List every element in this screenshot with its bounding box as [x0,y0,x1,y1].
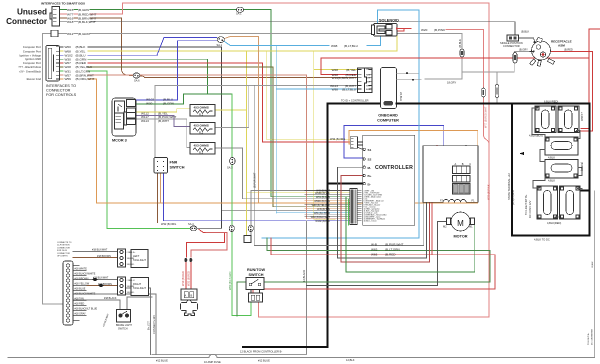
svg-text:W31 (B,GRN: W31 (B,GRN [316,196,330,199]
svg-text:SA.1: SA.1 [236,12,242,16]
battery interconnect wires [532,108,582,217]
svg-text:M-: M- [368,166,372,170]
svg-text:CONNECTOR: CONNECTOR [57,253,70,255]
svg-text:#12 BLUE: #12 BLUE [156,359,168,363]
svg-text:CONNECT+12V: CONNECT+12V [152,315,156,334]
svg-text:W-B: W-B [371,243,377,247]
wire gray vertical x=155 into FNR top [154,86,156,159]
svg-text:(B,PUR,WHT: (B,PUR,WHT [385,243,403,247]
labels MCOR wires [141,98,176,124]
wire W-B PUR/WHT loop below controller [254,86,424,246]
svg-text:W66: W66 [371,253,378,257]
wire W102 (B,BLU) controls pin3 [60,54,64,56]
svg-text:W113: W113 [141,119,149,123]
labels computer port rows [18,45,42,81]
wire cyan into onboard computer pin [276,88,357,90]
motor ABC connector lower [453,176,471,183]
svg-text:12 BLACK FROM CONTROLLER B-: 12 BLACK FROM CONTROLLER B- [240,350,282,354]
wire gray 12BLACK vertical x=305 to bottom line [306,221,308,355]
wire W57 pink run down x=287 to 16-pin [88,75,350,219]
svg-text:#18 TAN: #18 TAN [75,298,84,301]
wire cyan from junction SA.1b diagonal to y=45.3 [225,42,330,46]
wire W15 short link [74,8,78,10]
left taillight box [131,250,148,268]
svg-text:B: B [191,294,193,298]
junction SA.1b on blue pair [217,37,224,43]
svg-text:M2: M2 [443,225,447,229]
battery 4 middle horizontal lower [545,160,578,179]
svg-text:W28: W28 [332,68,339,72]
svg-text:#18 BLACK/WHITE: #18 BLACK/WHITE [75,293,96,296]
svg-text:(B,RED: (B,RED [385,253,396,257]
controller pin list tiny lines [364,190,387,222]
wire W18 (B,BLK,WHT) pin4 [59,21,67,23]
svg-text:M: M [457,219,464,228]
wire thin gray line y=354.5 [152,354,307,356]
wire motor red inside box [437,146,456,166]
battery 3 middle horizontal [545,137,578,155]
wire green W65 loop 16pin to motor M1 [346,197,475,272]
svg-text:18,BRN: 18,BRN [127,286,135,288]
wire FNR brown drop [157,173,159,223]
onboard computer box [381,68,397,109]
svg-text:TO ID + CONTROLLER: TO ID + CONTROLLER [341,99,369,103]
svg-text:PUR: PUR [366,82,371,84]
wire W117 purple from MCOR to R2 [136,115,194,126]
svg-text:#18 RED: #18 RED [75,303,85,306]
junction oval on gray vertical x=250.8 at rail [248,225,253,231]
battery 6 bottom-right [560,186,581,219]
wire W66 RED loop below controller [253,238,495,293]
wire yellow branch into controller 4-pin [267,51,351,140]
key switch connector [181,289,197,300]
wire yellow vertical x=313.7 to onboard + 16-pin [314,51,335,219]
connector for controls [46,46,60,82]
wire W31 (B,LT,GRN) controls pin7 [60,70,64,72]
svg-text:#18 BLACK/LT BLUE: #18 BLACK/LT BLUE [75,308,98,311]
svg-text:(B,BLK): (B,BLK) [580,162,584,171]
wire RUN/TOW pink drop to y=317 [257,302,259,317]
wire red receptacle down right side to battery plus [550,52,593,132]
junction SA.1 on green top wire [236,7,243,12]
svg-text:12,BLK: 12,BLK [346,358,355,362]
wire blue S2 loop up and over to motor ABC pin B [344,126,461,166]
svg-text:W34 (B,ORG: W34 (B,ORG [330,137,345,141]
svg-text:TO LIGHT KIT B+: TO LIGHT KIT B+ [524,194,528,215]
svg-text:S1: S1 [368,148,372,152]
svg-text:COMPUTER: COMPUTER [377,119,399,123]
wire W28 (B,YEL,BLK) controls pin6 [60,66,64,68]
wire W68 (B,YEL) controls pin2 [60,50,64,52]
svg-text:SWITCH: SWITCH [249,273,264,277]
brake light switch [117,310,131,323]
svg-text:Computer Port: Computer Port [23,49,41,53]
wire motor black inside box [465,146,467,166]
svg-text:B+,LT,T: B+,LT,T [147,321,151,330]
svg-text:W60 (B,BLK,WHT: W60 (B,BLK,WHT [311,216,331,219]
wire R2 output gray up to onboard WHT pin [215,86,249,128]
svg-text:#18BLU: #18BLU [127,280,135,282]
wire W31 light green run down x=105.5 across bottom [88,71,191,228]
svg-text:SWITCH: SWITCH [170,166,185,170]
inline capsule connector on gray x=462 [460,49,464,57]
svg-text:(B,BRN,WHT: (B,BRN,WHT [338,76,356,80]
junction SA.3 on green vertical x=232 [230,157,236,164]
svg-text:RED: RED [366,74,371,76]
svg-text:Buzzer Gnd: Buzzer Gnd [27,77,42,81]
wire red riser into W66 loop [431,202,433,254]
svg-text:B+: B+ [368,174,372,178]
svg-text:CONNECTOR: CONNECTOR [46,89,71,93]
wire W12 (B,GRAY) run right [58,33,67,35]
wire gray long y=85.5 from FNR to onboard computer [155,85,358,87]
svg-text:INTERFACES TO SMART BOX: INTERFACES TO SMART BOX [41,2,86,6]
svg-text:4,BLK(RED): 4,BLK(RED) [547,221,561,225]
junction oval on green vertical at rail [229,225,234,231]
wire W77 (B,RED,WHT) pin2 [59,13,67,15]
wire W68 yellow long run to solenoid and verticals [88,34,397,51]
wire W12 (B,GRAY) stub left to vertical [42,33,51,35]
resistor R3 453 OHMS [190,143,215,155]
svg-text:#18 BROWN: #18 BROWN [98,283,112,286]
wire yellow branch into onboard computer pin1 [314,68,358,70]
wire W57 (B,BRN,WHT) controls pin8 [60,74,64,76]
svg-text:18,RED: 18,RED [127,264,135,266]
wire W60 (B,BLK) controls pin1 [60,46,64,48]
wire blue W102 diagonal rise to junction SA.1b [157,38,217,56]
wire orange from junction SA.1b down x=258.3 to orange bus [225,37,259,203]
svg-text:#18 BLACK: #18 BLACK [104,297,117,300]
labels 16-pin wire bundle [311,190,331,223]
wire red vertical x=589 from top edge to battery plus [581,29,600,129]
svg-text:W20: W20 [421,28,428,32]
svg-text:#18 BROWN: #18 BROWN [75,278,89,281]
svg-text:Computer Port: Computer Port [23,45,41,49]
wire thick black controller B- down and across [243,104,397,347]
left taillight connector [118,249,126,267]
receptacle asm [530,37,555,66]
svg-text:RIGHT: RIGHT [133,282,141,286]
svg-text:MOTOR: MOTOR [453,235,467,239]
wire solenoid red output W20 [397,28,411,30]
svg-text:??? - Black/Yellow: ??? - Black/Yellow [18,65,42,69]
svg-text:W19 (B,RED: W19 (B,RED [181,271,185,286]
svg-text:A: A [185,294,187,298]
wire (B,GRY) capsule to receptacle [514,52,533,53]
svg-text:(B,LT,BLU: (B,LT,BLU [344,44,358,48]
svg-text:#18 BROWN: #18 BROWN [97,255,111,258]
wire cyan vertical x=421 from solenoid top [378,10,419,238]
svg-text:453 OHMS: 453 OHMS [194,124,209,128]
svg-text:(B,GRY: (B,GRY [519,47,528,51]
right taillight connector [118,277,126,295]
svg-text:SA.1: SA.1 [217,43,223,47]
onboard computer connector [358,68,373,93]
wire motor M2 stub [437,220,447,222]
svg-text:18,BRN: 18,BRN [127,258,135,260]
wire battery thick black jumper to frame [580,190,589,192]
wire W15 green long run, down at x=268 to 16-pin row [90,8,236,10]
svg-text:OF LIGHTS: OF LIGHTS [57,256,68,258]
svg-text:6,BLK(RED): 6,BLK(RED) [544,100,558,104]
resistor R1 453 OHMS [190,105,215,117]
svg-text:W28 (B,YEL,BLK: W28 (B,YEL,BLK [312,204,331,207]
wire W16 brown down to junction SA.6 then long run to onboard computer [90,18,122,69]
controller 16-pin tick marks [357,191,361,221]
svg-text:DC CONV 12V: DC CONV 12V [528,200,532,218]
svg-text:W21 (B,RED: W21 (B,RED [187,271,191,286]
wire gray receptacle stub left [425,72,462,79]
svg-text:R.1: R.1 [199,113,204,117]
wire 16-pin extra rows stubs [305,190,350,192]
labels controller pins [368,148,372,186]
svg-text:CONNECTS TO: CONNECTS TO [57,242,72,244]
svg-text:TAILLIGHT: TAILLIGHT [133,286,146,290]
svg-text:453 OHMS: 453 OHMS [194,144,209,148]
svg-text:(B,PINK: (B,PINK [434,28,446,32]
battery 1 top-left [535,106,556,133]
wire lights right verticals [126,288,151,355]
motor assembly box [423,146,478,203]
labels onboard connector wires [330,68,357,92]
svg-text:+2V - Green/Black: +2V - Green/Black [19,69,42,73]
wire right edge gray to bottom [593,191,595,358]
wire brake light switch black [73,300,120,310]
svg-text:#12 BLUE: #12 BLUE [258,359,270,363]
inline connector box on verticals x=244-251 [244,236,251,243]
svg-text:M1: M1 [469,225,473,229]
wire controller B+ loop to motor F1 [341,176,429,263]
wire lights strip feeds [73,250,118,252]
labels left taillight pins [127,252,137,266]
wire yellow vertical x=243.7 to 16-pin row [246,51,248,235]
svg-text:(B,BLK: (B,BLK [521,30,529,34]
svg-text:R.2: R.2 [199,131,204,135]
svg-text:ONBOARD: ONBOARD [378,114,398,118]
wire W15 (B,GRN) unused connector pin1 [59,8,67,10]
svg-text:(B,LT,BLU: (B,LT,BLU [342,88,356,92]
svg-text:16 BLU - Driver: 16 BLU - Driver [364,220,377,223]
svg-text:W68D (B,YEL: W68D (B,YEL [315,192,331,195]
unused connector (interfaces to smart box) [50,7,60,27]
run/tow switch box [246,278,264,290]
svg-text:453 OHMS: 453 OHMS [194,106,209,110]
junction dots on taillight wires [93,278,104,287]
labels onboard pin column [366,69,371,91]
solenoid [372,24,398,37]
battery 5 bottom-left [537,186,558,219]
svg-text:SWITCH: SWITCH [118,328,128,331]
wire gray below capsule to 18GRY run [462,57,514,73]
labels right taillight pins [127,280,135,294]
wire FNR tan drop to orange bus [160,173,162,203]
svg-text:W15: W15 [67,8,74,12]
thick black B- wire segment to battery box [397,103,513,105]
inline capsule connector on gray x=515 [513,53,517,64]
motor circle [447,212,475,231]
svg-text:W56D (B,ORG: W56D (B,ORG [314,200,330,203]
svg-text:W102 (B,BLU: W102 (B,BLU [315,220,330,223]
svg-text:STATE TERMINAL +12: STATE TERMINAL +12 [507,173,511,200]
labels lights strip pins [75,268,98,316]
svg-text:+1,RED: +1,RED [580,112,584,121]
wire cyan vertical x=276.2 [275,45,277,213]
svg-text:18,RED: 18,RED [127,292,135,294]
FNR switch [154,158,168,174]
svg-text:WHT: WHT [366,85,371,87]
svg-text:Connector: Connector [6,17,48,26]
wire W30 (B,GRN) controls pin4 [60,58,64,60]
wire green light from lower 16-pin [348,199,350,225]
wire FNR blue drop long to 16-pin row [164,173,351,221]
svg-text:#18 BLUE: #18 BLUE [75,288,86,291]
wire R1 output yellow [215,109,247,111]
svg-text:W60 (B,LT,GRN: W60 (B,LT,GRN [228,271,232,290]
svg-text:(B,LT,GRN: (B,LT,GRN [385,248,400,252]
wire red vertical x=321 to onboard pin2 [321,58,358,75]
wire gray drop x=497 with capsule into B- wire [496,72,498,84]
labels loop wires below controller [371,243,403,257]
svg-text:MCOR 3: MCOR 3 [112,139,127,143]
wire green junction vertical top x=232.3 [231,94,233,158]
svg-text:Computer Port: Computer Port [23,61,41,65]
svg-text:ASM: ASM [558,44,565,48]
svg-text:SA.6: SA.6 [134,79,140,83]
wire gray rail from junction SA.4 to x=221.3 vertical [197,227,222,229]
svg-text:CONTROLLER: CONTROLLER [375,165,413,171]
svg-text:BLU: BLU [366,89,370,91]
single position connector [507,35,519,41]
wire W30 green run down joining overpass [88,59,208,94]
controller main box [363,135,415,225]
svg-text:(B,RED: (B,RED [564,47,573,51]
svg-text:Ignition + Voltage: Ignition + Voltage [20,53,42,57]
svg-text:W56: W56 [65,77,72,81]
motor ABC connector upper [453,166,471,174]
svg-text:(B,BLK: (B,BLK [458,39,462,47]
motor speed sensor hatched label [453,184,471,195]
svg-text:4,BLK(BLU): 4,BLK(BLU) [529,133,543,137]
wire W20 pink run right, down x=483.4 with capsule, jog to 489 [446,30,483,89]
battery labels [507,100,584,242]
svg-text:BRN: BRN [366,78,371,80]
svg-text:W56 (B,LT,BLU: W56 (B,LT,BLU [314,212,331,215]
svg-text:CONNECTOR: CONNECTOR [503,44,520,48]
svg-text:INTERFACES TO: INTERFACES TO [46,84,76,88]
wire W12 gray vertical down left side to lights connector [42,34,63,305]
wire cyan long bottom run y=238 to motor area [262,237,419,239]
wire red inner loop to key switch [191,232,227,257]
svg-text:4,BLK: 4,BLK [548,156,555,160]
svg-text:W12: W12 [67,32,74,36]
wire W56 orange loop: down x=98, across y=203, up x=477.7, left y=130.2, down to 4-pin [88,79,478,203]
wire key switch red vertical 1 [190,262,192,289]
wire W67 red long run to 4-pin connector of controller [88,63,350,142]
wire W18 black/white long run to single position connector [90,22,515,35]
svg-text:4,BLK TO DC: 4,BLK TO DC [534,238,550,242]
wire long red y=57.8 to battery right side [321,57,589,59]
svg-text:12-POSITION: 12-POSITION [57,245,70,247]
svg-text:FOR 20-26: FOR 20-26 [57,250,68,252]
wire red drop from rail to key switch outer loop [186,230,224,258]
svg-text:(B,GRN: (B,GRN [78,8,89,12]
wire controller M- loop to motor [337,167,426,258]
wire W16 (B,BRN,WHT) pin3 [59,17,67,19]
W12 single pin connector [51,30,58,37]
svg-text:CONNECTOR: CONNECTOR [57,247,70,249]
svg-text:(B,GRAY: (B,GRAY [78,32,91,36]
svg-text:#18 GRAY: #18 GRAY [75,313,87,316]
svg-text:#18 BLK/WHT: #18 BLK/WHT [92,249,108,252]
svg-text:W98: W98 [332,88,339,92]
svg-text:DC CONVERTER: DC CONVERTER [592,328,594,345]
svg-text:#18 BLK/WHT: #18 BLK/WHT [93,277,109,280]
svg-text:RUN/TOW: RUN/TOW [247,268,265,272]
svg-text:2X,BLU: 2X,BLU [399,92,403,101]
wire W67 (B,RED) controls pin5 [60,62,64,64]
svg-text:B-: B- [368,182,371,186]
svg-text:FOR CONTROLS: FOR CONTROLS [46,93,77,97]
battery arrow marker [519,152,524,155]
wire blue MCOR vertical x=177.3 to junction [136,41,177,100]
controller left pins S1 S2 M- B+ B- [363,148,365,185]
junction ovals above key switch [184,258,192,262]
svg-text:10 AMP FUSE: 10 AMP FUSE [204,360,221,364]
svg-text:SA.3: SA.3 [227,166,233,170]
key switch key shape [181,300,198,316]
junction SA.6 on brown wire [133,73,140,78]
svg-text:#18 BLACK/WHITE: #18 BLACK/WHITE [75,273,96,276]
wire MCOR yellow W112 to R1 [136,109,191,112]
svg-text:FNR: FNR [170,161,178,165]
svg-text:Unused: Unused [17,8,47,17]
svg-text:#18BLK+: #18BLK+ [127,252,137,254]
lights connector strip [63,261,73,325]
svg-text:(B,GRN: (B,GRN [163,102,174,106]
lights strip pin stub wires [73,266,86,321]
wire W28 dark run down x=272 to 16-pin [88,67,350,207]
svg-text:TAILLIGHT: TAILLIGHT [133,258,146,262]
svg-text:(B,+) LT,BLU: (B,+) LT,BLU [511,190,515,205]
battery bank outer box thick [512,104,590,236]
wire bottom main line with fuse [8,357,209,359]
svg-text:Ignition GND: Ignition GND [25,57,41,61]
motor field coil at box bottom [443,199,466,202]
svg-text:(B,BLK,WHT: (B,BLK,WHT [78,20,96,24]
inline capsule connector on W20 red [482,88,486,97]
svg-text:(B,YEL: (B,YEL [346,68,356,72]
wire W113 white from MCOR to R3 [136,119,193,147]
wire green vertical x=232.3 to RUN/TOW [232,158,251,316]
wire W77 pink long top run down right side to y=317 [90,3,489,317]
svg-text:S2: S2 [368,158,372,162]
resistor R2 453 OHMS [190,123,215,135]
labels controls connector wires [65,45,95,81]
wire thick black B- pin [327,183,364,185]
svg-text:12,BLACK: 12,BLACK [302,270,306,282]
svg-text:(B,WHT: (B,WHT [158,119,169,123]
svg-text:18,GRY: 18,GRY [447,81,456,85]
junction SA.4 on brown FNR wire [190,226,196,231]
wire W60 black run down at x=221 to 16-pin row [88,47,221,229]
label lights header text block [57,242,72,258]
svg-text:W18: W18 [67,20,74,24]
svg-text:SOLENOID: SOLENOID [379,19,399,23]
controller 4-pin connector [350,137,363,150]
svg-text:4,BLK: 4,BLK [548,179,555,183]
svg-text:(B,ORG,WHT: (B,ORG,WHT [76,77,95,81]
right taillight box [131,278,149,296]
